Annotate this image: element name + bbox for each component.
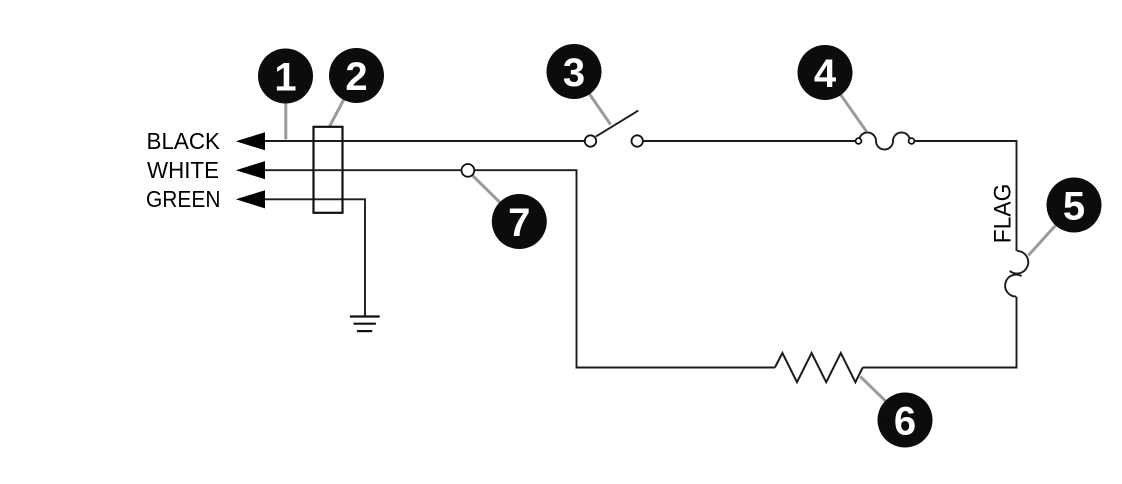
leader callout 7: [472, 175, 520, 222]
wire: flag bottom to bottom-right corner and left to resistor: [863, 297, 1017, 368]
callout circle 4: [798, 45, 853, 100]
leader callout 3: [574, 72, 611, 125]
fuse right terminal: [909, 138, 915, 144]
wire: resistor left to loop corner and up, then white wire to arrow: [265, 170, 775, 367]
svg-text:5: 5: [1063, 184, 1085, 228]
switch (callout 3): left contact: [585, 135, 596, 146]
junction circle (callout 7 target) on white wire: [462, 164, 475, 177]
wire black (top) segment: arrow to switch: [265, 140, 585, 142]
flag lamp element: bottom arc: [1005, 275, 1022, 297]
wire green: arrow to down-turn toward ground: [265, 199, 366, 316]
svg-text:3: 3: [563, 51, 585, 95]
svg-text:BLACK: BLACK: [147, 128, 221, 154]
callout circle 7: [492, 194, 547, 249]
svg-text:4: 4: [814, 52, 837, 96]
switch arm: [596, 111, 638, 137]
wire black: fuse to top-right corner, down to flag: [914, 141, 1016, 251]
leader callout 1: [284, 76, 287, 140]
flag lamp element (callout 5): top arc: [1010, 251, 1029, 274]
callout circle 1: [258, 49, 313, 104]
svg-text:7: 7: [508, 201, 530, 245]
leader callout 6: [860, 377, 905, 421]
arrow black wire: [236, 132, 265, 150]
arrow white wire: [236, 161, 265, 179]
ground symbol: [350, 317, 380, 332]
svg-text:GREEN: GREEN: [146, 186, 221, 212]
callout circle 5: [1047, 178, 1102, 233]
switch right contact: [632, 135, 643, 146]
callout circle 3: [547, 44, 602, 99]
svg-text:FLAG: FLAG: [990, 184, 1017, 244]
svg-text:WHITE: WHITE: [147, 157, 219, 183]
wire black: switch to fuse: [644, 140, 856, 142]
callout circle 6: [878, 393, 933, 448]
svg-text:2: 2: [345, 55, 367, 99]
callout circle 2: [329, 48, 384, 103]
leader callout 5: [1028, 205, 1074, 256]
leader callout 2: [330, 76, 357, 127]
svg-text:6: 6: [894, 399, 916, 443]
leader callout 4: [825, 73, 867, 132]
fuse left terminal: [856, 138, 862, 144]
fuse (callout 4): wave element: [859, 132, 910, 149]
connector block (callout 2 target): [314, 127, 343, 213]
arrow green wire: [236, 190, 265, 208]
svg-text:1: 1: [274, 55, 296, 99]
resistor (callout 6) zigzag: [775, 353, 863, 382]
